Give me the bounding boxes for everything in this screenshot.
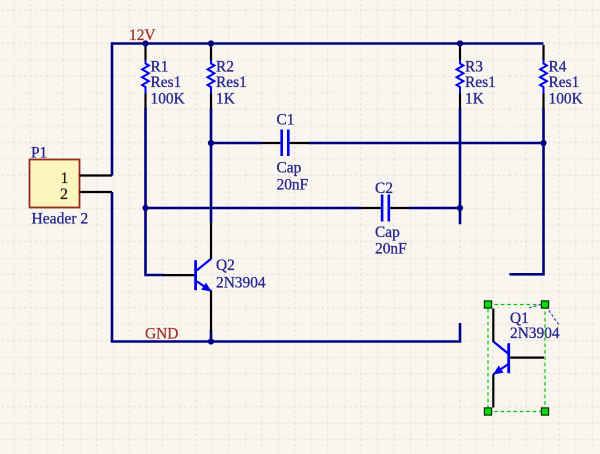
wire left GND vertical from P1 pin2 bbox=[111, 192, 114, 342]
svg-text:Cap: Cap bbox=[277, 160, 302, 177]
svg-text:2N3904: 2N3904 bbox=[216, 274, 266, 291]
svg-text:1K: 1K bbox=[216, 91, 235, 108]
svg-text:Cap: Cap bbox=[375, 224, 400, 241]
svg-text:Header 2: Header 2 bbox=[32, 211, 89, 228]
junction R4/C1 row bbox=[540, 140, 546, 146]
transistor Q1 (selected) bbox=[493, 309, 560, 408]
svg-text:R3: R3 bbox=[465, 59, 483, 76]
resistor R4 bbox=[540, 45, 583, 109]
resistor R3 bbox=[457, 45, 496, 109]
svg-text:R4: R4 bbox=[549, 59, 567, 76]
wire left 12V vertical to P1 pin1 bbox=[111, 42, 114, 175]
junction R1/C2 row bbox=[142, 205, 148, 211]
wire Q2 emitter to GND bbox=[210, 330, 213, 342]
svg-text:12V: 12V bbox=[129, 27, 156, 44]
wire R2 branch vertical bbox=[210, 108, 213, 223]
wire 12V rail bbox=[112, 42, 544, 45]
svg-text:20nF: 20nF bbox=[375, 240, 407, 257]
svg-text:1K: 1K bbox=[465, 91, 484, 108]
junction Q2 emitter on GND rail bbox=[208, 338, 214, 344]
wire C1 row left bbox=[211, 142, 262, 145]
junction R2 top on 12V rail bbox=[208, 40, 214, 46]
junction R3/C2 row bbox=[457, 205, 463, 211]
junction R3 top on 12V rail bbox=[457, 40, 463, 46]
svg-text:20nF: 20nF bbox=[277, 177, 309, 194]
svg-text:Res1: Res1 bbox=[465, 74, 496, 91]
svg-text:100K: 100K bbox=[549, 91, 583, 108]
wire R1 branch vertical and to Q2 base bbox=[146, 108, 164, 275]
svg-text:1: 1 bbox=[61, 170, 69, 187]
svg-text:2N3904: 2N3904 bbox=[510, 325, 560, 342]
wire GND rail with right stub up bbox=[111, 323, 460, 342]
capacitor C1 bbox=[262, 111, 310, 193]
svg-text:P1: P1 bbox=[31, 144, 47, 161]
wire C1 row right to R4 bbox=[309, 142, 544, 145]
transistor Q2 bbox=[163, 223, 266, 332]
svg-text:C1: C1 bbox=[277, 111, 295, 128]
wire C2 row left bbox=[146, 207, 362, 210]
selection box of Q1 bbox=[484, 301, 559, 415]
connector P1 bbox=[30, 144, 113, 227]
svg-text:Res1: Res1 bbox=[151, 74, 182, 91]
svg-text:C2: C2 bbox=[375, 180, 393, 197]
junction R1 top on 12V rail bbox=[142, 40, 148, 46]
svg-text:100K: 100K bbox=[151, 91, 185, 108]
svg-text:R1: R1 bbox=[151, 59, 169, 76]
svg-text:Q2: Q2 bbox=[216, 257, 235, 274]
svg-text:Res1: Res1 bbox=[216, 74, 247, 91]
wire R3 branch vertical bbox=[459, 108, 462, 224]
wire R4 branch vertical and left stub bbox=[510, 108, 544, 274]
svg-text:2: 2 bbox=[60, 186, 68, 203]
capacitor C2 bbox=[361, 180, 410, 257]
svg-text:GND: GND bbox=[145, 325, 178, 342]
resistor R1 bbox=[142, 45, 185, 109]
svg-text:R2: R2 bbox=[216, 59, 234, 76]
junction R2/C1 row bbox=[208, 140, 214, 146]
resistor R2 bbox=[208, 45, 247, 109]
wire C2 row right to R3 bbox=[409, 207, 460, 210]
svg-text:Res1: Res1 bbox=[549, 74, 580, 91]
